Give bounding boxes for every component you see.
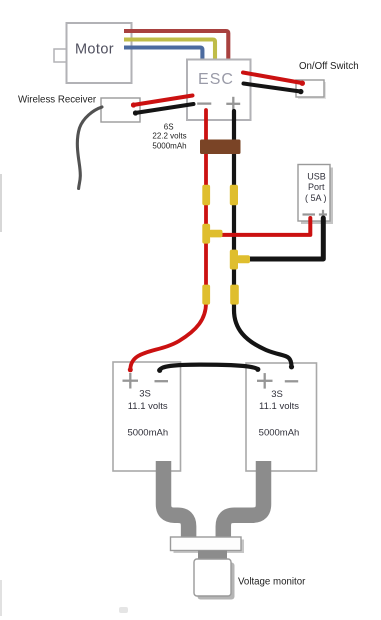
svg-text:5000mAh: 5000mAh xyxy=(127,428,168,439)
T-connector red xyxy=(202,224,222,244)
USB port U2 xyxy=(298,165,333,225)
wire: receiver to ESC black xyxy=(135,104,194,113)
bullet connector black 2 xyxy=(230,285,239,305)
grey lead: B1 to monitor xyxy=(164,461,189,542)
svg-text:6S: 6S xyxy=(164,123,174,132)
wire: main positive red (ESC to B1+) xyxy=(130,110,206,370)
label: 6S pack spec xyxy=(152,123,186,151)
wireless receiver RX1 xyxy=(101,98,140,122)
T-connector black xyxy=(230,250,250,270)
bullet connector red 2 xyxy=(202,285,210,305)
svg-text:Port: Port xyxy=(308,182,325,192)
wire: motor phase yellow xyxy=(124,40,215,61)
svg-text:Voltage monitor: Voltage monitor xyxy=(238,577,306,588)
svg-text:ESC: ESC xyxy=(198,71,234,88)
svg-text:11.1 volts: 11.1 volts xyxy=(128,401,168,412)
wire: ESC to switch black xyxy=(244,84,301,92)
svg-text:5000mAh: 5000mAh xyxy=(259,428,300,439)
svg-text:( 5A ): ( 5A ) xyxy=(305,193,327,203)
on/off switch S1 xyxy=(296,80,326,99)
battery B2 (right 3S) xyxy=(246,363,317,471)
fuse block (brown) xyxy=(200,140,241,155)
grey lead: B2 to monitor xyxy=(223,461,263,542)
wire: receiver to ESC red xyxy=(133,96,193,106)
svg-text:Motor: Motor xyxy=(75,42,114,58)
wire: series link black (B1- to B2+) xyxy=(160,365,259,371)
svg-text:USB: USB xyxy=(307,172,326,182)
wire: main negative black (ESC to B2-) xyxy=(234,111,292,367)
wire: black tap to USB + xyxy=(248,218,323,259)
wire: ESC to switch red xyxy=(243,73,302,84)
voltage monitor module xyxy=(194,559,235,600)
bullet connector black 1 xyxy=(230,185,238,206)
ESC U1 xyxy=(187,60,251,121)
monitor neck xyxy=(198,551,227,561)
svg-text:Wireless Receiver: Wireless Receiver xyxy=(18,95,97,106)
antenna wire xyxy=(77,107,102,189)
svg-text:3S: 3S xyxy=(139,389,151,400)
bullet connector red 1 xyxy=(202,185,210,206)
svg-text:On/Off Switch: On/Off Switch xyxy=(299,61,359,72)
wire: motor phase red xyxy=(124,31,228,60)
motor M1 xyxy=(54,23,132,83)
balance plug plate xyxy=(171,537,245,553)
wire end blobs xyxy=(128,81,305,373)
svg-text:5000mAh: 5000mAh xyxy=(152,142,186,151)
wire: red tap to USB xyxy=(221,218,310,235)
wire: motor phase blue xyxy=(124,48,202,61)
battery B1 (left 3S) xyxy=(113,362,181,471)
svg-text:3S: 3S xyxy=(271,389,283,400)
svg-text:11.1 volts: 11.1 volts xyxy=(259,401,299,412)
svg-text:22.2 volts: 22.2 volts xyxy=(152,132,186,141)
